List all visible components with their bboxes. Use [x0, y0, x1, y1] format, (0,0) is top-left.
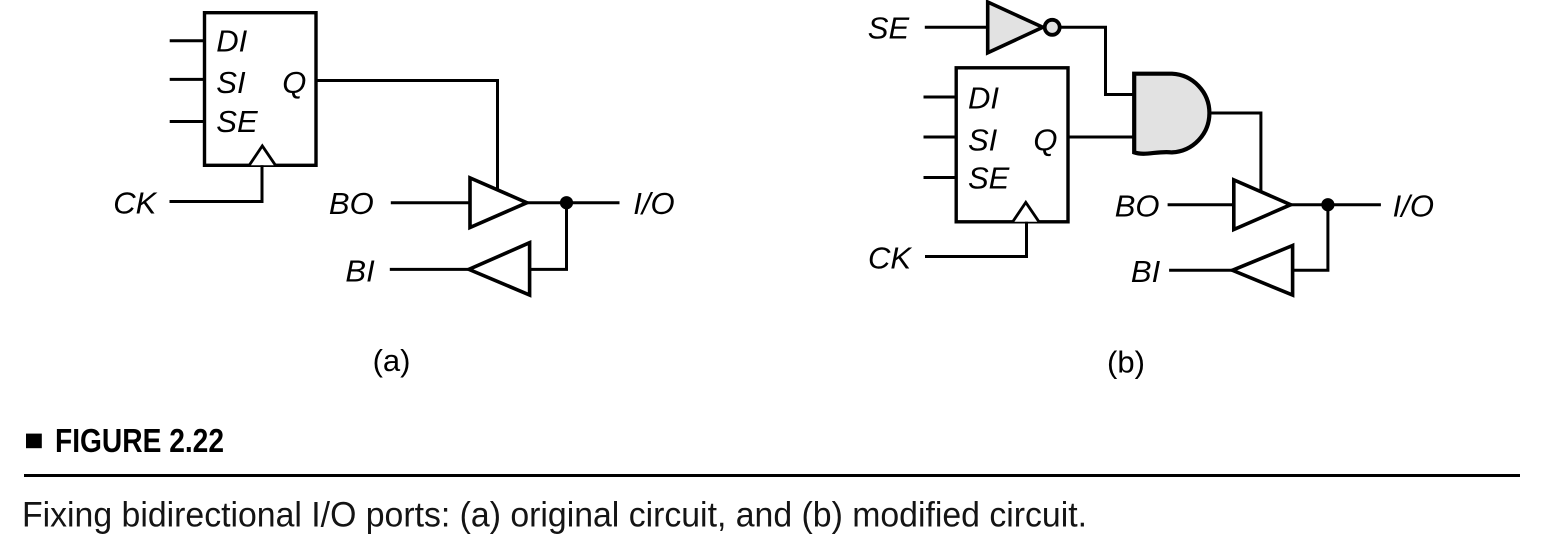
- flip-flop U1 (circuit a): [205, 13, 317, 166]
- wire SE input stub (a): [170, 120, 205, 123]
- figure label bullet square: [26, 434, 42, 449]
- wire SI input stub (a): [170, 78, 205, 81]
- wire SE to inverter (b): [925, 26, 988, 29]
- tri-state output buffer (a): [470, 178, 527, 228]
- caption separator rule: [24, 474, 1520, 477]
- svg-text:SE: SE: [216, 104, 258, 139]
- wire DI input stub (a): [170, 39, 205, 42]
- svg-text:(b): (b): [1107, 345, 1145, 380]
- svg-text:SI: SI: [216, 65, 246, 100]
- inverter G1 (b): [988, 2, 1043, 53]
- svg-text:CK: CK: [868, 240, 912, 275]
- svg-text:I/O: I/O: [1393, 188, 1434, 223]
- tri-state output buffer (b): [1234, 180, 1291, 230]
- svg-text:FIGURE 2.22: FIGURE 2.22: [55, 422, 224, 459]
- wire SE input stub (b): [924, 176, 957, 179]
- wire buffer output to I/O (b): [1291, 203, 1381, 206]
- junction dot (a): [560, 196, 573, 209]
- svg-text:Fixing bidirectional I/O ports: Fixing bidirectional I/O ports: (a) orig…: [22, 495, 1087, 534]
- wire BI (a): [390, 268, 469, 271]
- wire BI (b): [1169, 269, 1232, 272]
- clock edge triangle U2: [1013, 202, 1039, 221]
- wire BO input (b): [1168, 203, 1234, 206]
- AND gate G2 (b): [1134, 74, 1209, 154]
- wire Q to AND gate (b): [1068, 136, 1134, 139]
- wire I/O down to input buffer (a): [530, 203, 567, 270]
- input buffer (b): [1232, 246, 1292, 296]
- wire CK to clock pin (b): [925, 222, 1027, 257]
- svg-text:(a): (a): [373, 343, 411, 378]
- wire Q to buffer enable (a): [316, 81, 498, 191]
- svg-text:SI: SI: [968, 123, 998, 158]
- wire DI input stub (b): [924, 96, 957, 99]
- wire buffer output to I/O (a): [527, 201, 620, 204]
- clock edge triangle U1: [249, 146, 275, 165]
- svg-text:BO: BO: [329, 186, 374, 221]
- svg-text:BI: BI: [345, 254, 375, 289]
- flip-flop U2 (circuit b): [956, 68, 1068, 222]
- svg-text:SE: SE: [868, 11, 910, 46]
- wire SI input stub (b): [924, 136, 957, 139]
- svg-text:BO: BO: [1115, 188, 1160, 223]
- svg-text:DI: DI: [216, 23, 247, 58]
- wire inverter output to AND input (b): [1061, 27, 1134, 94]
- svg-text:DI: DI: [968, 80, 999, 115]
- svg-text:Q: Q: [1033, 123, 1057, 158]
- svg-text:Q: Q: [282, 65, 306, 100]
- wire BO input (a): [391, 201, 470, 204]
- wire I/O down to input buffer (b): [1293, 205, 1328, 271]
- svg-text:I/O: I/O: [633, 186, 674, 221]
- svg-text:BI: BI: [1131, 254, 1161, 289]
- svg-text:CK: CK: [113, 186, 157, 221]
- input buffer (a): [469, 243, 530, 295]
- junction dot (b): [1321, 198, 1334, 211]
- inverter bubble (b): [1045, 20, 1060, 35]
- svg-text:SE: SE: [968, 160, 1010, 195]
- wire CK to clock pin (a): [170, 165, 263, 201]
- wire AND output to buffer enable (b): [1211, 113, 1261, 192]
